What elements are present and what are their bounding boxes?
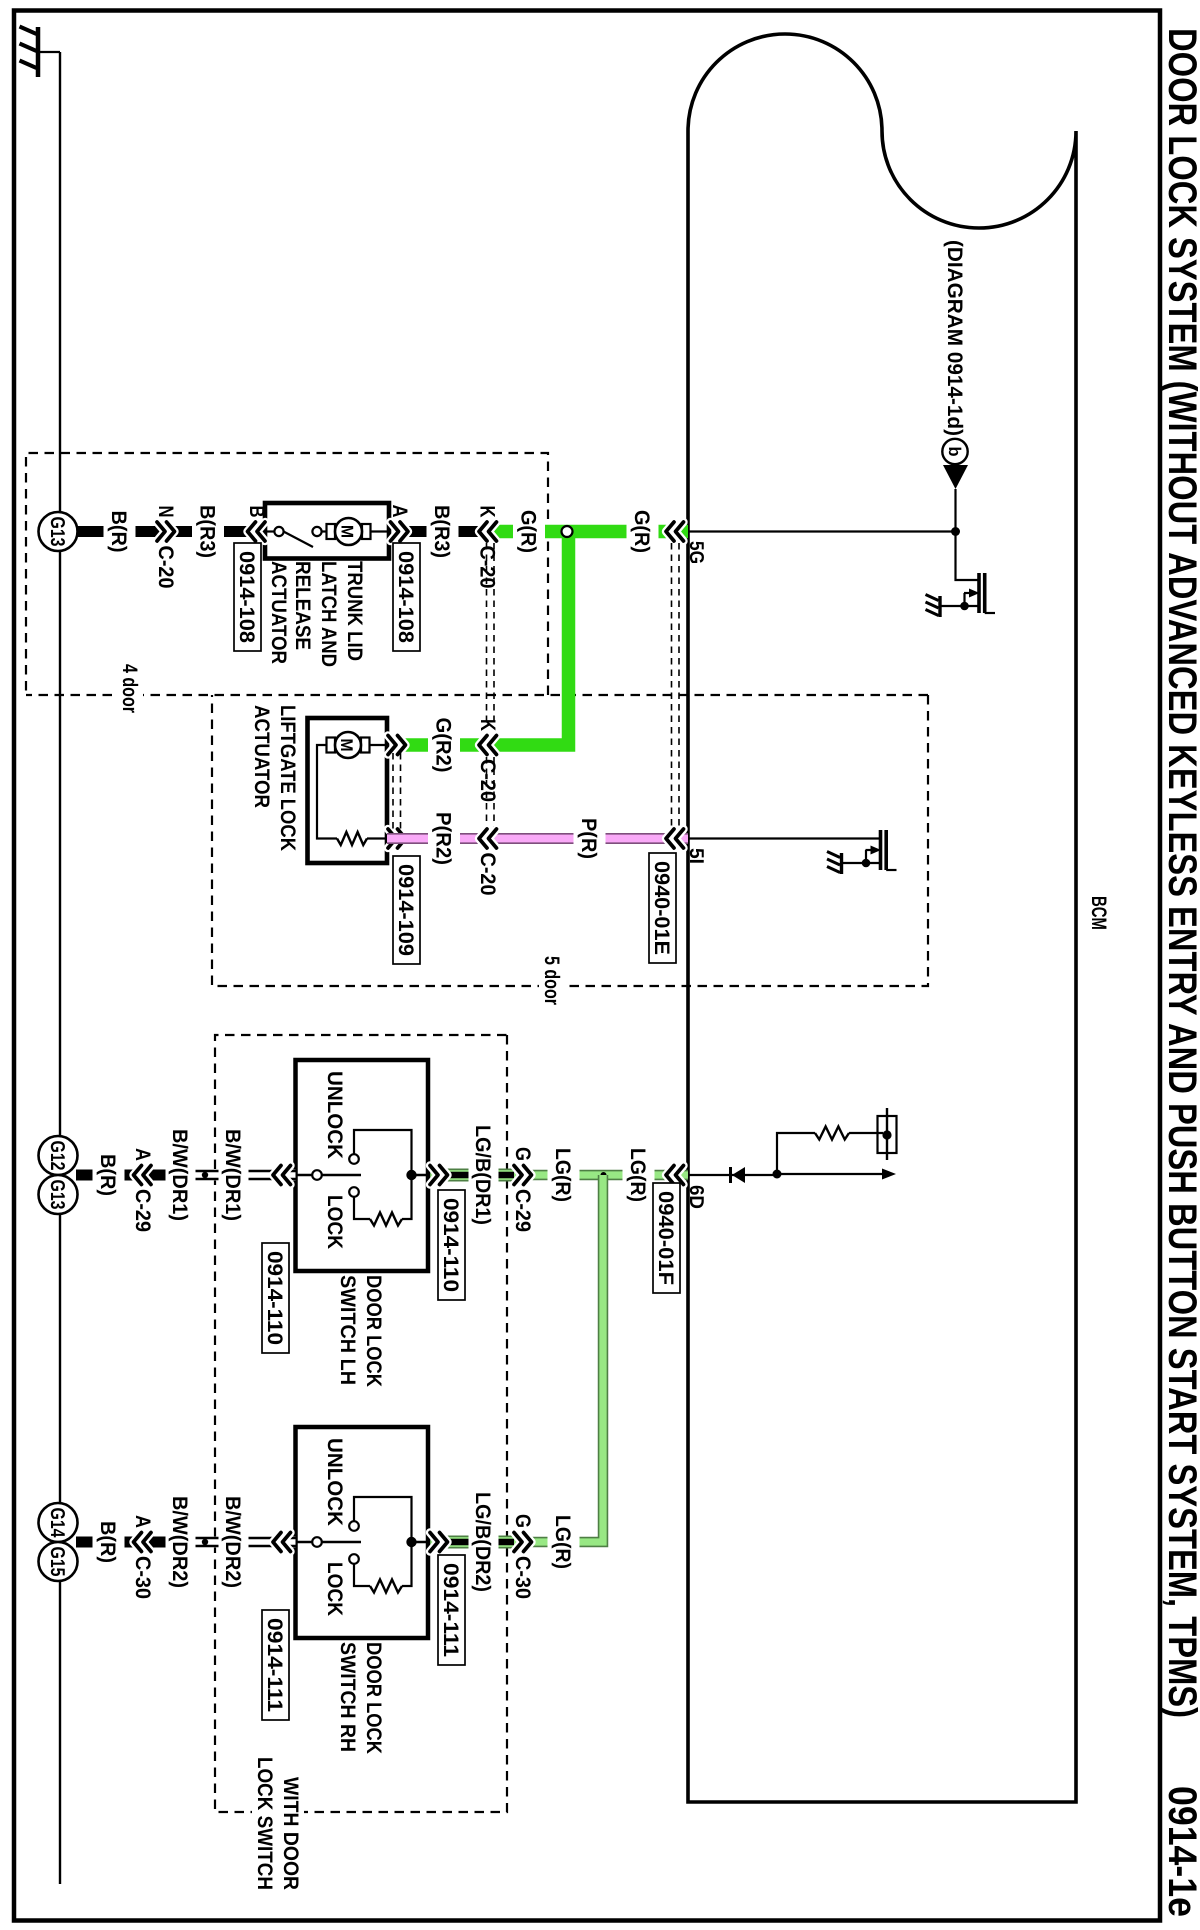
MOSFET near 5G: drain elbow xyxy=(956,532,978,581)
ground bus wire xyxy=(59,52,61,1884)
connector chevron RH top pin xyxy=(440,1533,448,1552)
door lock switch LH box xyxy=(296,1060,429,1271)
svg-text:G13: G13 xyxy=(46,1180,68,1210)
terminal box at 6D resistor xyxy=(878,1116,897,1153)
terminal through wire xyxy=(886,1108,888,1160)
svg-text:P(R2): P(R2) xyxy=(432,812,455,865)
MOSFET near 5G: arrow xyxy=(964,592,976,594)
switch RH lock loop wire xyxy=(354,1564,370,1586)
connector K C-20 liftgate chevron xyxy=(479,736,487,755)
wire label B/W(DR2) upper xyxy=(219,1493,249,1591)
ground circles G12 G13 xyxy=(39,1136,78,1175)
svg-text:B(R): B(R) xyxy=(107,511,130,553)
switch RH output junction dot xyxy=(406,1537,416,1547)
svg-text:M: M xyxy=(337,739,356,752)
splice dot on B/W RH xyxy=(202,1539,208,1545)
svg-text:G(R2): G(R2) xyxy=(432,718,455,773)
5 door label xyxy=(539,980,565,993)
terminal dot xyxy=(882,1130,891,1139)
ground circle G13 xyxy=(39,512,78,551)
svg-text:b: b xyxy=(945,447,964,457)
svg-text:UNLOCK: UNLOCK xyxy=(323,1071,346,1159)
svg-text:C-20: C-20 xyxy=(476,759,499,802)
svg-text:DOOR LOCK: DOOR LOCK xyxy=(362,1642,385,1754)
svg-text:C-30: C-30 xyxy=(131,1556,154,1599)
switch LH lever xyxy=(322,1174,361,1176)
wire label B(R3) lower xyxy=(192,502,224,561)
MOSFET near 5I: gate lead stub xyxy=(886,869,896,871)
ground circles G14 G15 xyxy=(39,1503,78,1542)
svg-text:DOOR LOCK: DOOR LOCK xyxy=(362,1275,385,1387)
with door lock switch label xyxy=(252,1806,304,1818)
wire B/W(DR2) RH xyxy=(168,1536,296,1547)
wire label B(R) RH xyxy=(93,1518,125,1566)
wire 6D junction to arrow xyxy=(777,1173,884,1175)
svg-text:B/W(DR2): B/W(DR2) xyxy=(221,1496,244,1588)
ground at 5I mosfet xyxy=(840,853,843,874)
liftgate internal resistor xyxy=(337,832,367,845)
wire label LG(R) RH xyxy=(548,1512,580,1572)
wire 6D inside BCM xyxy=(688,1174,777,1176)
wire B(R3) upper trunk xyxy=(394,526,488,537)
wire label B(R) LH xyxy=(93,1151,125,1199)
wire B(R3) lower trunk xyxy=(162,526,265,537)
connector B chevron trunk xyxy=(248,522,256,541)
liftgate motor M xyxy=(368,744,387,746)
svg-text:B/W(DR1): B/W(DR1) xyxy=(221,1129,244,1221)
wire B(R) LH xyxy=(76,1170,168,1181)
boxed label 0914-109 xyxy=(393,856,420,964)
switch LH resistor xyxy=(370,1213,402,1226)
svg-text:RELEASE: RELEASE xyxy=(291,561,314,650)
svg-text:C-20: C-20 xyxy=(476,853,499,896)
connector chevron liftgate motor pin xyxy=(398,736,406,755)
svg-text:SWITCH LH: SWITCH LH xyxy=(336,1275,359,1385)
switch LH unlock contact xyxy=(349,1154,359,1164)
svg-text:B(R): B(R) xyxy=(96,1154,119,1196)
wire G(R2) liftgate xyxy=(392,738,488,752)
wire label B/W(DR2) lower xyxy=(166,1493,196,1591)
svg-text:G14: G14 xyxy=(46,1508,68,1539)
svg-text:0940-01F: 0940-01F xyxy=(654,1191,677,1285)
svg-text:5 door: 5 door xyxy=(540,956,563,1005)
svg-text:DOOR LOCK SYSTEM (WITHOUT ADVA: DOOR LOCK SYSTEM (WITHOUT ADVANCED KEYLE… xyxy=(1160,28,1200,1718)
svg-text:P(R): P(R) xyxy=(577,818,600,859)
switch RH resistor xyxy=(370,1580,402,1593)
svg-text:G12: G12 xyxy=(46,1141,68,1171)
wire B(R) to G13 xyxy=(76,526,162,537)
green branch wire to liftgate xyxy=(488,532,569,746)
wire label B/W(DR1) lower xyxy=(166,1126,196,1224)
door lock switch RH box xyxy=(296,1427,429,1638)
dashed link K C-20 pair xyxy=(493,543,495,727)
svg-text:4 door: 4 door xyxy=(118,664,141,713)
connector 5I chevron xyxy=(666,829,674,848)
connector K C-20 chevron xyxy=(479,522,487,541)
MOSFET near 5I: source lead xyxy=(842,862,880,864)
svg-text:LIFTGATE LOCK: LIFTGATE LOCK xyxy=(276,705,299,851)
wire label LG/B(DR2) xyxy=(469,1489,499,1595)
connector chevron liftgate resistor pin xyxy=(398,829,406,848)
svg-text:M: M xyxy=(338,525,357,538)
svg-text:A: A xyxy=(388,505,411,518)
svg-text:TRUNK LID: TRUNK LID xyxy=(343,561,366,661)
boxed label 0940-01E xyxy=(649,853,676,963)
wire 5G to junction inside BCM xyxy=(688,530,956,532)
wire LG/B(DR2) RH xyxy=(428,1536,519,1549)
5 door dashed box xyxy=(212,695,928,986)
svg-text:0914-108: 0914-108 xyxy=(394,551,417,643)
svg-text:C-30: C-30 xyxy=(511,1556,534,1599)
boxed label 0914-111 top xyxy=(438,1555,465,1665)
wire label LG/B(DR1) xyxy=(469,1122,499,1228)
svg-text:B(R): B(R) xyxy=(96,1521,119,1563)
wire B/W(DR1) LH xyxy=(168,1169,296,1180)
4 door label xyxy=(117,688,143,701)
svg-text:LG(R): LG(R) xyxy=(551,1515,574,1569)
svg-text:0914-111: 0914-111 xyxy=(263,1618,286,1712)
connector N C-20 chevron xyxy=(167,522,175,541)
wire LG/B(DR1) LH xyxy=(428,1169,519,1182)
switch LH unlock loop wire xyxy=(354,1130,412,1175)
switch LH lock loop wire xyxy=(354,1197,370,1219)
MOSFET near 5I: channel bar xyxy=(879,830,883,870)
connector C-20 pink chevron xyxy=(479,829,487,848)
connector 5G chevron xyxy=(666,522,674,541)
wire label B/W(DR1) upper xyxy=(219,1126,249,1224)
svg-text:LG/B(DR1): LG/B(DR1) xyxy=(471,1125,494,1225)
LG branch junction dot xyxy=(601,1172,607,1178)
wire B(R) RH xyxy=(76,1537,168,1548)
MOSFET near 5G: source junction dot xyxy=(960,602,969,611)
svg-text:LOCK: LOCK xyxy=(323,1562,346,1616)
BCM box outline xyxy=(688,34,1076,1802)
dashed link liftgate pins xyxy=(400,753,402,830)
svg-text:LATCH AND: LATCH AND xyxy=(317,561,340,667)
wire 6D branch left xyxy=(777,1133,815,1174)
wire P(R2) pink xyxy=(387,833,488,844)
splice dot on B/W LH xyxy=(202,1172,208,1178)
chassis ground G xyxy=(40,51,60,53)
svg-text:6D: 6D xyxy=(685,1185,707,1209)
connector chevron LH top pin xyxy=(440,1166,448,1185)
svg-text:0914-108: 0914-108 xyxy=(235,551,258,643)
liftgate internal wire motor to resistor xyxy=(317,745,337,839)
trunk switch moving contact xyxy=(274,527,283,536)
svg-text:0940-01E: 0940-01E xyxy=(650,861,673,955)
with door lock switch dashed box xyxy=(215,1035,507,1812)
svg-text:0914-111: 0914-111 xyxy=(439,1563,462,1657)
svg-text:SWITCH RH: SWITCH RH xyxy=(336,1642,359,1752)
wire label G(R2) xyxy=(428,715,460,776)
svg-text:LOCK: LOCK xyxy=(323,1195,346,1249)
MOSFET near 5I: source junction dot xyxy=(862,859,871,868)
svg-text:B(R3): B(R3) xyxy=(430,505,453,558)
trunk actuator internals: motor M xyxy=(370,530,389,532)
svg-text:B(R3): B(R3) xyxy=(196,505,219,558)
connector A C-30 chevron xyxy=(134,1533,142,1552)
svg-text:WITH DOOR: WITH DOOR xyxy=(279,1777,302,1890)
switch RH moving contact xyxy=(312,1537,322,1547)
wire label G(R) lower xyxy=(513,507,545,556)
svg-text:B/W(DR2): B/W(DR2) xyxy=(168,1496,191,1588)
diode at 6D xyxy=(732,1167,745,1183)
svg-text:G(R): G(R) xyxy=(630,510,653,553)
connector G C-29 chevron xyxy=(524,1166,532,1185)
wire label B(R3) upper xyxy=(427,502,459,561)
svg-text:BCM: BCM xyxy=(1087,896,1110,930)
wire label B(R) at G13 xyxy=(104,508,136,556)
svg-text:LG/B(DR2): LG/B(DR2) xyxy=(471,1492,494,1592)
svg-text:0914-110: 0914-110 xyxy=(263,1251,286,1345)
switch RH lever xyxy=(322,1541,361,1543)
svg-text:(DIAGRAM 0914-1d): (DIAGRAM 0914-1d) xyxy=(943,240,966,436)
svg-text:C-29: C-29 xyxy=(511,1189,534,1232)
svg-text:LG(R): LG(R) xyxy=(551,1148,574,1202)
wire label P(R2) xyxy=(428,809,460,868)
MOSFET near 5G: channel bar xyxy=(977,573,981,613)
shared dashed edge 4door/5door xyxy=(26,694,928,696)
arrowhead up at 6D xyxy=(882,1169,896,1180)
wire label G(R) upper xyxy=(627,507,659,556)
resistor at 6D xyxy=(815,1127,849,1140)
boxed label 0914-108 upper xyxy=(393,543,420,651)
svg-text:5G: 5G xyxy=(685,541,707,564)
switch LH moving contact xyxy=(312,1170,322,1180)
wire junction to arrow b xyxy=(954,489,956,532)
svg-text:G: G xyxy=(511,1147,534,1161)
trunk switch lever xyxy=(284,532,314,548)
liftgate lock actuator box xyxy=(308,718,388,863)
connector 6D chevron xyxy=(666,1166,674,1185)
switch RH unlock contact xyxy=(349,1521,359,1531)
svg-text:LG(R): LG(R) xyxy=(626,1148,649,1202)
connector chevron RH bottom pin xyxy=(273,1533,281,1552)
boxed label 0914-108 lower xyxy=(234,543,261,651)
connector chevron LH bottom pin xyxy=(273,1166,281,1185)
svg-text:C-29: C-29 xyxy=(131,1189,154,1232)
boxed label 0940-01F xyxy=(653,1183,680,1293)
svg-text:G15: G15 xyxy=(46,1547,68,1577)
wire P(R) pink to BCM 5I xyxy=(488,833,688,844)
switch LH lock contact xyxy=(349,1187,359,1197)
boxed label 0914-110 bottom xyxy=(262,1243,289,1353)
liftgate resistor to pink pin xyxy=(367,837,387,839)
6D junction dot xyxy=(773,1170,782,1179)
4 door dashed box xyxy=(26,453,548,695)
svg-text:B: B xyxy=(245,506,268,518)
wire G(R) from BCM pin 5G xyxy=(488,525,688,539)
boxed label 0914-110 top xyxy=(438,1190,465,1300)
svg-text:G(R): G(R) xyxy=(517,510,540,553)
svg-text:LOCK SWITCH: LOCK SWITCH xyxy=(253,1757,276,1890)
wire 5I inside BCM xyxy=(688,837,881,839)
connector A C-29 chevron xyxy=(134,1166,142,1185)
switch RH lock contact xyxy=(349,1554,359,1564)
svg-text:0914-1e: 0914-1e xyxy=(1160,1786,1200,1917)
LG(R) branch wire to RH xyxy=(519,1175,603,1542)
switch RH unlock loop wire xyxy=(354,1497,412,1542)
circle b reference xyxy=(942,439,967,464)
svg-text:UNLOCK: UNLOCK xyxy=(323,1438,346,1526)
switch LH output junction dot xyxy=(406,1170,416,1180)
wire label P(R) xyxy=(574,815,606,862)
trunk switch fixed contact xyxy=(322,530,328,532)
MOSFET near 5I: gate bar xyxy=(884,830,888,870)
trunk actuator box xyxy=(265,503,389,559)
svg-text:C-20: C-20 xyxy=(154,546,177,589)
svg-text:0914-110: 0914-110 xyxy=(439,1198,462,1292)
svg-text:G13: G13 xyxy=(46,517,68,547)
connector G C-30 chevron xyxy=(524,1533,532,1552)
MOSFET near 5G: gate lead stub xyxy=(985,612,995,614)
MOSFET near 5I: arrow xyxy=(866,849,878,851)
svg-text:K: K xyxy=(476,506,499,518)
svg-text:A: A xyxy=(131,1148,154,1161)
svg-text:G: G xyxy=(511,1514,534,1528)
off-page arrow triangle b xyxy=(943,465,968,489)
dashed link 5G 5I pair xyxy=(678,543,680,828)
svg-text:N: N xyxy=(154,506,177,518)
wire label LG(R) lower LH xyxy=(548,1145,580,1205)
MOSFET near 5G: source lead xyxy=(940,605,978,607)
boxed label 0914-111 bottom xyxy=(262,1610,289,1720)
svg-text:ACTUATOR: ACTUATOR xyxy=(250,705,273,808)
wire label LG(R) upper LH xyxy=(623,1145,655,1205)
svg-text:K: K xyxy=(476,719,499,731)
svg-text:A: A xyxy=(131,1515,154,1528)
MOSFET near 5G: gate bar xyxy=(983,573,987,613)
ground at 5G mosfet xyxy=(938,596,941,617)
junction dot at 5G internal node xyxy=(951,527,960,536)
svg-text:B/W(DR1): B/W(DR1) xyxy=(168,1129,191,1221)
connector A chevron trunk xyxy=(400,522,408,541)
svg-text:5I: 5I xyxy=(685,848,707,864)
wire LG(R) LH from BCM 6D xyxy=(519,1170,688,1181)
svg-text:ACTUATOR: ACTUATOR xyxy=(267,561,290,664)
svg-text:0914-109: 0914-109 xyxy=(394,864,417,956)
